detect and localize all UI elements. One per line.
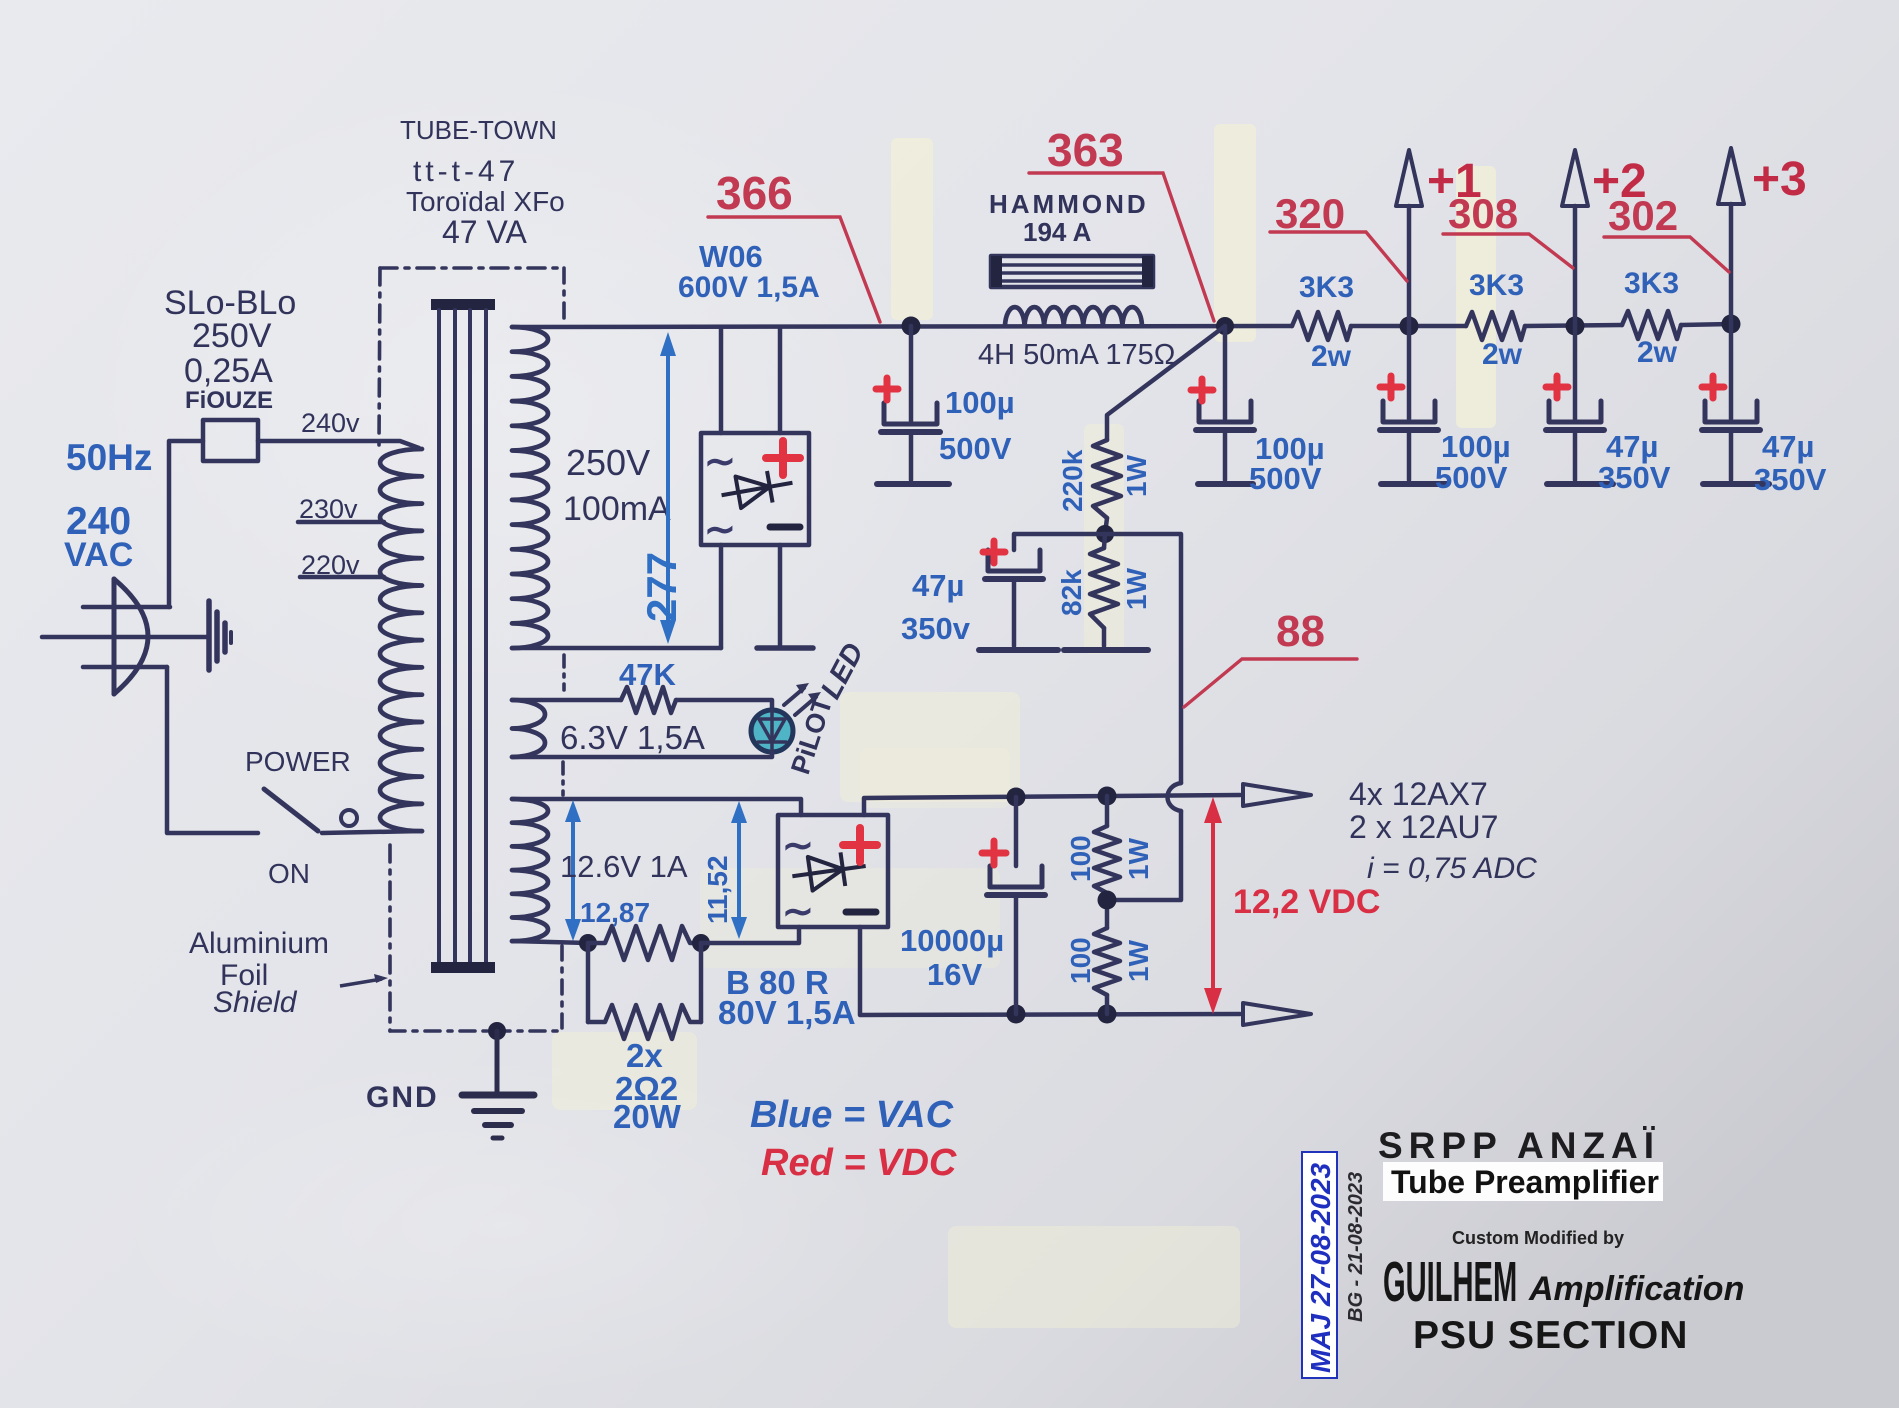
12.6V winding — [512, 799, 548, 941]
svg-text:GUILHEM: GUILHEM — [1383, 1252, 1517, 1314]
svg-text:100µ: 100µ — [945, 385, 1015, 420]
wire R1 to +2 node — [1351, 324, 1466, 329]
arrow to shield — [340, 979, 382, 986]
primary winding — [380, 449, 422, 831]
plus mark C5 — [1702, 376, 1724, 398]
capacitor 10000u lead — [1014, 797, 1019, 866]
bridge B80R plus riser — [864, 795, 1240, 815]
+1 output arrow — [1407, 206, 1412, 326]
bridge B80R diode symbol — [790, 849, 868, 893]
svg-text:12.6V 1A: 12.6V 1A — [560, 849, 688, 884]
3K3 resistor R3 — [1622, 311, 1681, 339]
3K3 resistor R1 — [1292, 312, 1351, 340]
pilot LED symbol — [770, 710, 774, 752]
tape strip behind 220K — [1084, 424, 1124, 654]
svg-text:3K3: 3K3 — [1299, 271, 1354, 304]
capacitor C2 top plate — [1199, 401, 1251, 422]
capacitor C2 bottom plate — [1196, 427, 1254, 433]
resistor 220K 1W — [1093, 440, 1121, 518]
wire 47K to LED — [676, 700, 772, 710]
tape strip right of HAMMOND — [1214, 124, 1256, 342]
svg-text:4x 12AX7: 4x 12AX7 — [1349, 776, 1488, 812]
capacitor C2 lower lead — [1223, 430, 1228, 480]
capacitor C3 bottom plate — [1380, 427, 1438, 433]
svg-text:Blue = VAC: Blue = VAC — [750, 1094, 954, 1136]
red measure 12,2 VDC arrow — [1204, 797, 1222, 1014]
bridge W06 diode symbol — [719, 467, 795, 511]
svg-text:47 VA: 47 VA — [442, 214, 527, 250]
wire 88V junction to heater hop — [1105, 534, 1181, 783]
plus mark C2 — [1191, 379, 1213, 401]
GND earth symbol — [462, 1092, 534, 1099]
6.3V bottom wire — [512, 752, 772, 757]
wire R2 to +3 node — [1525, 325, 1622, 326]
capacitor C1 top plate — [884, 403, 937, 424]
bridge W06 minus termination bar — [757, 645, 813, 651]
svg-text:47µ: 47µ — [912, 568, 964, 603]
capacitor C5 lead — [1729, 324, 1734, 419]
wire hop over heater rail — [1168, 783, 1182, 811]
svg-text:2w: 2w — [1482, 338, 1523, 371]
6.3V top wire — [512, 698, 621, 703]
svg-text:Toroïdal XFo: Toroïdal XFo — [406, 186, 565, 217]
capacitor C4 lead — [1573, 326, 1578, 419]
svg-text:+2: +2 — [1592, 155, 1647, 208]
resistor 2R2 first — [588, 926, 701, 960]
bridge W06 minus mark — [770, 524, 800, 531]
red label 88 — [1184, 659, 1357, 707]
svg-text:50Hz: 50Hz — [66, 437, 152, 478]
capacitor C5 top plate — [1705, 401, 1757, 422]
heater - terminal arrow — [1243, 1003, 1311, 1025]
capacitor C1 bottom plate — [881, 429, 940, 435]
svg-text:12,87: 12,87 — [580, 897, 650, 928]
6.3V winding — [512, 700, 545, 757]
svg-text:0,25A: 0,25A — [184, 352, 273, 390]
svg-text:350v: 350v — [901, 611, 971, 646]
capacitor 10000u lower lead — [1014, 895, 1019, 1014]
resistor 47K — [621, 687, 676, 713]
transformer core laminations — [437, 310, 441, 963]
230V tap stub — [298, 520, 384, 525]
capacitor 47u350V bottom plate — [985, 576, 1043, 582]
svg-text:i = 0,75 ADC: i = 0,75 ADC — [1367, 852, 1537, 885]
diagonal wire node2 to 220K — [1107, 326, 1225, 440]
choke L1 core box — [991, 256, 1153, 287]
svg-text:MAJ 27-08-2023: MAJ 27-08-2023 — [1305, 1162, 1336, 1373]
capacitor C3 lower lead — [1407, 430, 1412, 480]
svg-text:+1: +1 — [1427, 155, 1482, 208]
capacitor C3 ground bar — [1381, 481, 1447, 487]
plus mark C3 — [1380, 376, 1402, 398]
capacitor C1 lower lead — [909, 432, 914, 480]
svg-text:3K3: 3K3 — [1624, 267, 1679, 300]
svg-text:80V 1,5A: 80V 1,5A — [718, 994, 856, 1031]
capacitor 10000u bottom plate — [987, 892, 1045, 898]
resistor 100R upper — [1094, 826, 1120, 893]
resistor 82K 1W — [1090, 548, 1118, 628]
svg-text:GND: GND — [366, 1081, 439, 1114]
svg-text:88: 88 — [1276, 607, 1325, 656]
wire 220K to junction — [1105, 518, 1107, 534]
svg-text:1W: 1W — [1123, 939, 1154, 982]
choke L1 winding — [1005, 307, 1142, 326]
svg-text:16V: 16V — [927, 957, 982, 992]
capacitor C4 ground bar — [1547, 481, 1613, 487]
svg-text:HAMMOND: HAMMOND — [989, 189, 1149, 219]
svg-text:250V: 250V — [566, 442, 650, 483]
svg-text:82k: 82k — [1056, 569, 1087, 616]
capacitor C3 lead — [1407, 326, 1412, 419]
bridge B80R box — [778, 815, 888, 927]
node at C1 — [902, 317, 921, 336]
wire hop to 100R midpoint — [1107, 811, 1181, 900]
LED light arrows — [784, 688, 804, 705]
svg-text:12,2 VDC: 12,2 VDC — [1233, 883, 1380, 921]
plus mark 47u — [983, 541, 1005, 563]
transformer shield dashed box top — [380, 266, 564, 270]
resistor 82K ground bar — [1064, 647, 1148, 653]
wire switch to primary bottom — [322, 831, 422, 833]
HV secondary winding 250V — [512, 327, 548, 648]
wire 2R2 to bridge — [701, 927, 799, 943]
main B+ rail left section — [512, 326, 1292, 327]
capacitor C5 lower lead — [1729, 430, 1734, 480]
svg-text:1W: 1W — [1123, 837, 1154, 880]
svg-text:320: 320 — [1275, 190, 1345, 237]
svg-text:tt-t-47: tt-t-47 — [413, 155, 519, 188]
GND wire down — [495, 1031, 500, 1092]
pilot LED body — [751, 710, 793, 752]
capacitor C5 bottom plate — [1702, 427, 1760, 433]
bridge B80R plus mark — [843, 828, 877, 862]
red label 302 — [1604, 237, 1729, 272]
svg-text:20W: 20W — [613, 1098, 682, 1135]
svg-text:∼: ∼ — [782, 825, 814, 867]
node 10000u bottom — [1007, 1005, 1026, 1024]
mains plug body — [114, 579, 148, 694]
+2 output arrow — [1573, 206, 1578, 326]
svg-text:∼: ∼ — [704, 441, 736, 483]
svg-text:PSU SECTION: PSU SECTION — [1413, 1314, 1688, 1357]
transformer core bottom cap — [431, 962, 495, 973]
svg-text:47K: 47K — [619, 657, 676, 692]
node 10000u top — [1007, 788, 1026, 807]
red label 366 — [708, 217, 880, 322]
GND junction node — [488, 1022, 506, 1040]
plus mark C4 — [1546, 376, 1568, 398]
node after choke — [1216, 317, 1234, 335]
bridge B80R minus mark — [846, 909, 876, 916]
svg-text:Red = VDC: Red = VDC — [761, 1142, 957, 1184]
svg-text:100: 100 — [1065, 937, 1096, 984]
svg-text:2w: 2w — [1311, 340, 1352, 373]
wire plug to power switch — [167, 667, 258, 833]
transformer shield dashed box bottom — [390, 1029, 562, 1033]
svg-text:6.3V 1,5A: 6.3V 1,5A — [560, 719, 705, 756]
plug earth pin wire — [42, 635, 209, 640]
svg-text:100: 100 — [1065, 835, 1096, 882]
red label 363 — [1029, 173, 1214, 321]
12.6V bottom wire — [512, 941, 588, 943]
svg-text:∼: ∼ — [782, 891, 814, 933]
svg-text:∼: ∼ — [704, 509, 736, 551]
svg-text:3K3: 3K3 — [1469, 269, 1524, 302]
plug top prong wire — [83, 605, 170, 610]
wire junction to 47u cap — [1014, 534, 1105, 550]
capacitor C5 ground bar — [1703, 481, 1769, 487]
tape strip left of HAMMOND — [891, 138, 933, 320]
220V tap stub — [300, 575, 384, 580]
svg-text:240v: 240v — [301, 408, 360, 438]
svg-text:350V: 350V — [1598, 460, 1671, 495]
+3 output arrow — [1729, 204, 1734, 324]
svg-text:250V: 250V — [192, 317, 272, 355]
svg-text:4H 50mA 175Ω: 4H 50mA 175Ω — [978, 339, 1175, 371]
capacitor 47u350V top plate — [988, 550, 1040, 571]
bridge B80R minus wire — [860, 927, 1240, 1015]
wire fuse to 240V tap — [258, 441, 419, 448]
node 88V junction — [1096, 525, 1114, 543]
heater top wire winding to bridge — [512, 799, 801, 815]
resistor 100R upper lead — [1105, 796, 1110, 826]
plus mark C1 — [876, 378, 898, 400]
capacitor C4 top plate — [1549, 401, 1601, 422]
svg-text:363: 363 — [1047, 124, 1124, 176]
svg-text:W06: W06 — [699, 239, 763, 274]
svg-text:47µ: 47µ — [1762, 429, 1814, 464]
red label 308 — [1443, 234, 1573, 268]
capacitor C1 ground bar — [877, 481, 949, 487]
svg-text:194 A: 194 A — [1023, 217, 1092, 247]
+2 node — [1566, 317, 1585, 336]
node 100R bottom — [1098, 1005, 1117, 1024]
3K3 resistor R2 — [1466, 312, 1525, 340]
capacitor C1 100u500V lead — [909, 326, 914, 421]
capacitor 47u350V ground bar — [979, 647, 1058, 653]
resistor 100R lower lead — [1105, 995, 1110, 1014]
svg-text:VAC: VAC — [64, 536, 133, 574]
fuse F1 — [203, 420, 258, 461]
resistor 100R lower — [1094, 928, 1120, 995]
power switch S1 lever — [264, 789, 318, 831]
power switch contact circle — [341, 810, 357, 826]
svg-text:500V: 500V — [1435, 460, 1508, 495]
svg-text:11,52: 11,52 — [702, 855, 733, 924]
red label 320 — [1270, 232, 1407, 281]
svg-text:ON: ON — [268, 858, 310, 889]
svg-text:1W: 1W — [1121, 567, 1152, 610]
svg-text:350V: 350V — [1754, 462, 1827, 497]
blue measure arrow 277 — [660, 332, 676, 644]
svg-text:366: 366 — [716, 167, 793, 219]
capacitor C4 lower lead — [1573, 430, 1578, 480]
earth symbol at plug — [209, 601, 231, 670]
node 2R2 right — [692, 934, 710, 952]
bridge W06 minus riser — [778, 545, 783, 645]
capacitor 47u350V lower lead — [1012, 579, 1017, 646]
svg-text:Tube Preamplifier: Tube Preamplifier — [1391, 1164, 1659, 1200]
resistor 82K 1W lead — [1104, 534, 1105, 548]
node 100R midpoint — [1105, 893, 1110, 928]
transformer shield dashed box right segments — [562, 268, 566, 322]
svg-text:BG - 21-08-2023: BG - 21-08-2023 — [1345, 1172, 1367, 1322]
svg-text:FiOUZE: FiOUZE — [185, 387, 273, 414]
svg-text:+3: +3 — [1752, 153, 1807, 206]
transformer shield dashed box left — [379, 268, 380, 445]
bridge W06 ~ riser top left — [719, 327, 724, 433]
svg-text:SRPP ANZAÏ: SRPP ANZAÏ — [1378, 1125, 1660, 1166]
svg-text:2 x 12AU7: 2 x 12AU7 — [1349, 809, 1498, 845]
tape patch near 2x2R2 — [552, 1032, 697, 1110]
transformer core top cap — [431, 299, 495, 310]
svg-text:500V: 500V — [1249, 461, 1322, 496]
svg-text:2x: 2x — [626, 1037, 663, 1074]
tape patch near pilot LED — [840, 692, 1020, 802]
bridge W06 ~ riser bottom — [719, 545, 724, 648]
svg-text:2w: 2w — [1637, 336, 1678, 369]
svg-text:220v: 220v — [301, 550, 360, 580]
plus mark 10000u — [982, 841, 1006, 865]
svg-text:TUBE-TOWN: TUBE-TOWN — [400, 115, 557, 145]
plug bottom prong wire — [83, 665, 167, 670]
svg-text:Amplification: Amplification — [1528, 1270, 1744, 1308]
svg-text:Aluminium: Aluminium — [189, 927, 329, 960]
wire R3 to last node — [1681, 324, 1731, 325]
svg-text:230v: 230v — [299, 494, 358, 524]
capacitor C4 bottom plate — [1546, 427, 1604, 433]
wire plug to fuse — [169, 441, 203, 607]
tape strip below 308 — [1456, 166, 1496, 428]
svg-text:100µ: 100µ — [1441, 429, 1511, 464]
svg-text:Custom Modified by: Custom Modified by — [1452, 1228, 1624, 1248]
svg-text:47µ: 47µ — [1606, 429, 1658, 464]
heater + terminal arrow — [1243, 784, 1311, 806]
HV secondary bottom wire — [512, 646, 721, 651]
svg-text:500V: 500V — [939, 431, 1012, 466]
svg-text:POWER: POWER — [245, 746, 351, 777]
svg-text:Shield: Shield — [213, 986, 298, 1019]
bridge W06 box — [701, 433, 809, 545]
svg-text:1W: 1W — [1121, 454, 1152, 497]
capacitor C2 ground bar — [1198, 481, 1253, 487]
blue measure arrow 12,87 — [565, 800, 581, 941]
capacitor 10000u top plate — [990, 866, 1042, 887]
capacitor C3 top plate — [1383, 401, 1435, 422]
+1 node — [1400, 317, 1419, 336]
svg-text:10000µ: 10000µ — [900, 923, 1004, 958]
+3 node — [1722, 315, 1741, 334]
node 2R2 left — [579, 934, 597, 952]
blue measure arrow 11,52 — [731, 801, 747, 939]
svg-text:220k: 220k — [1057, 449, 1088, 512]
bridge W06 plus mark — [766, 441, 800, 475]
capacitor C2 lead — [1223, 326, 1228, 419]
stamp MAJ 27-08-2023 — [1302, 1152, 1337, 1378]
svg-text:100mA: 100mA — [563, 490, 671, 528]
svg-text:600V 1,5A: 600V 1,5A — [678, 271, 820, 304]
node 100R top — [1098, 787, 1117, 806]
resistor 82K lower lead — [1102, 628, 1107, 646]
bridge W06 + riser top right — [778, 327, 783, 433]
svg-text:277: 277 — [638, 552, 685, 622]
resistor 2R2 second parallel loop — [586, 943, 591, 1022]
tape patch near GND — [948, 1226, 1240, 1328]
title Tube Preamplifier box — [1383, 1162, 1663, 1201]
